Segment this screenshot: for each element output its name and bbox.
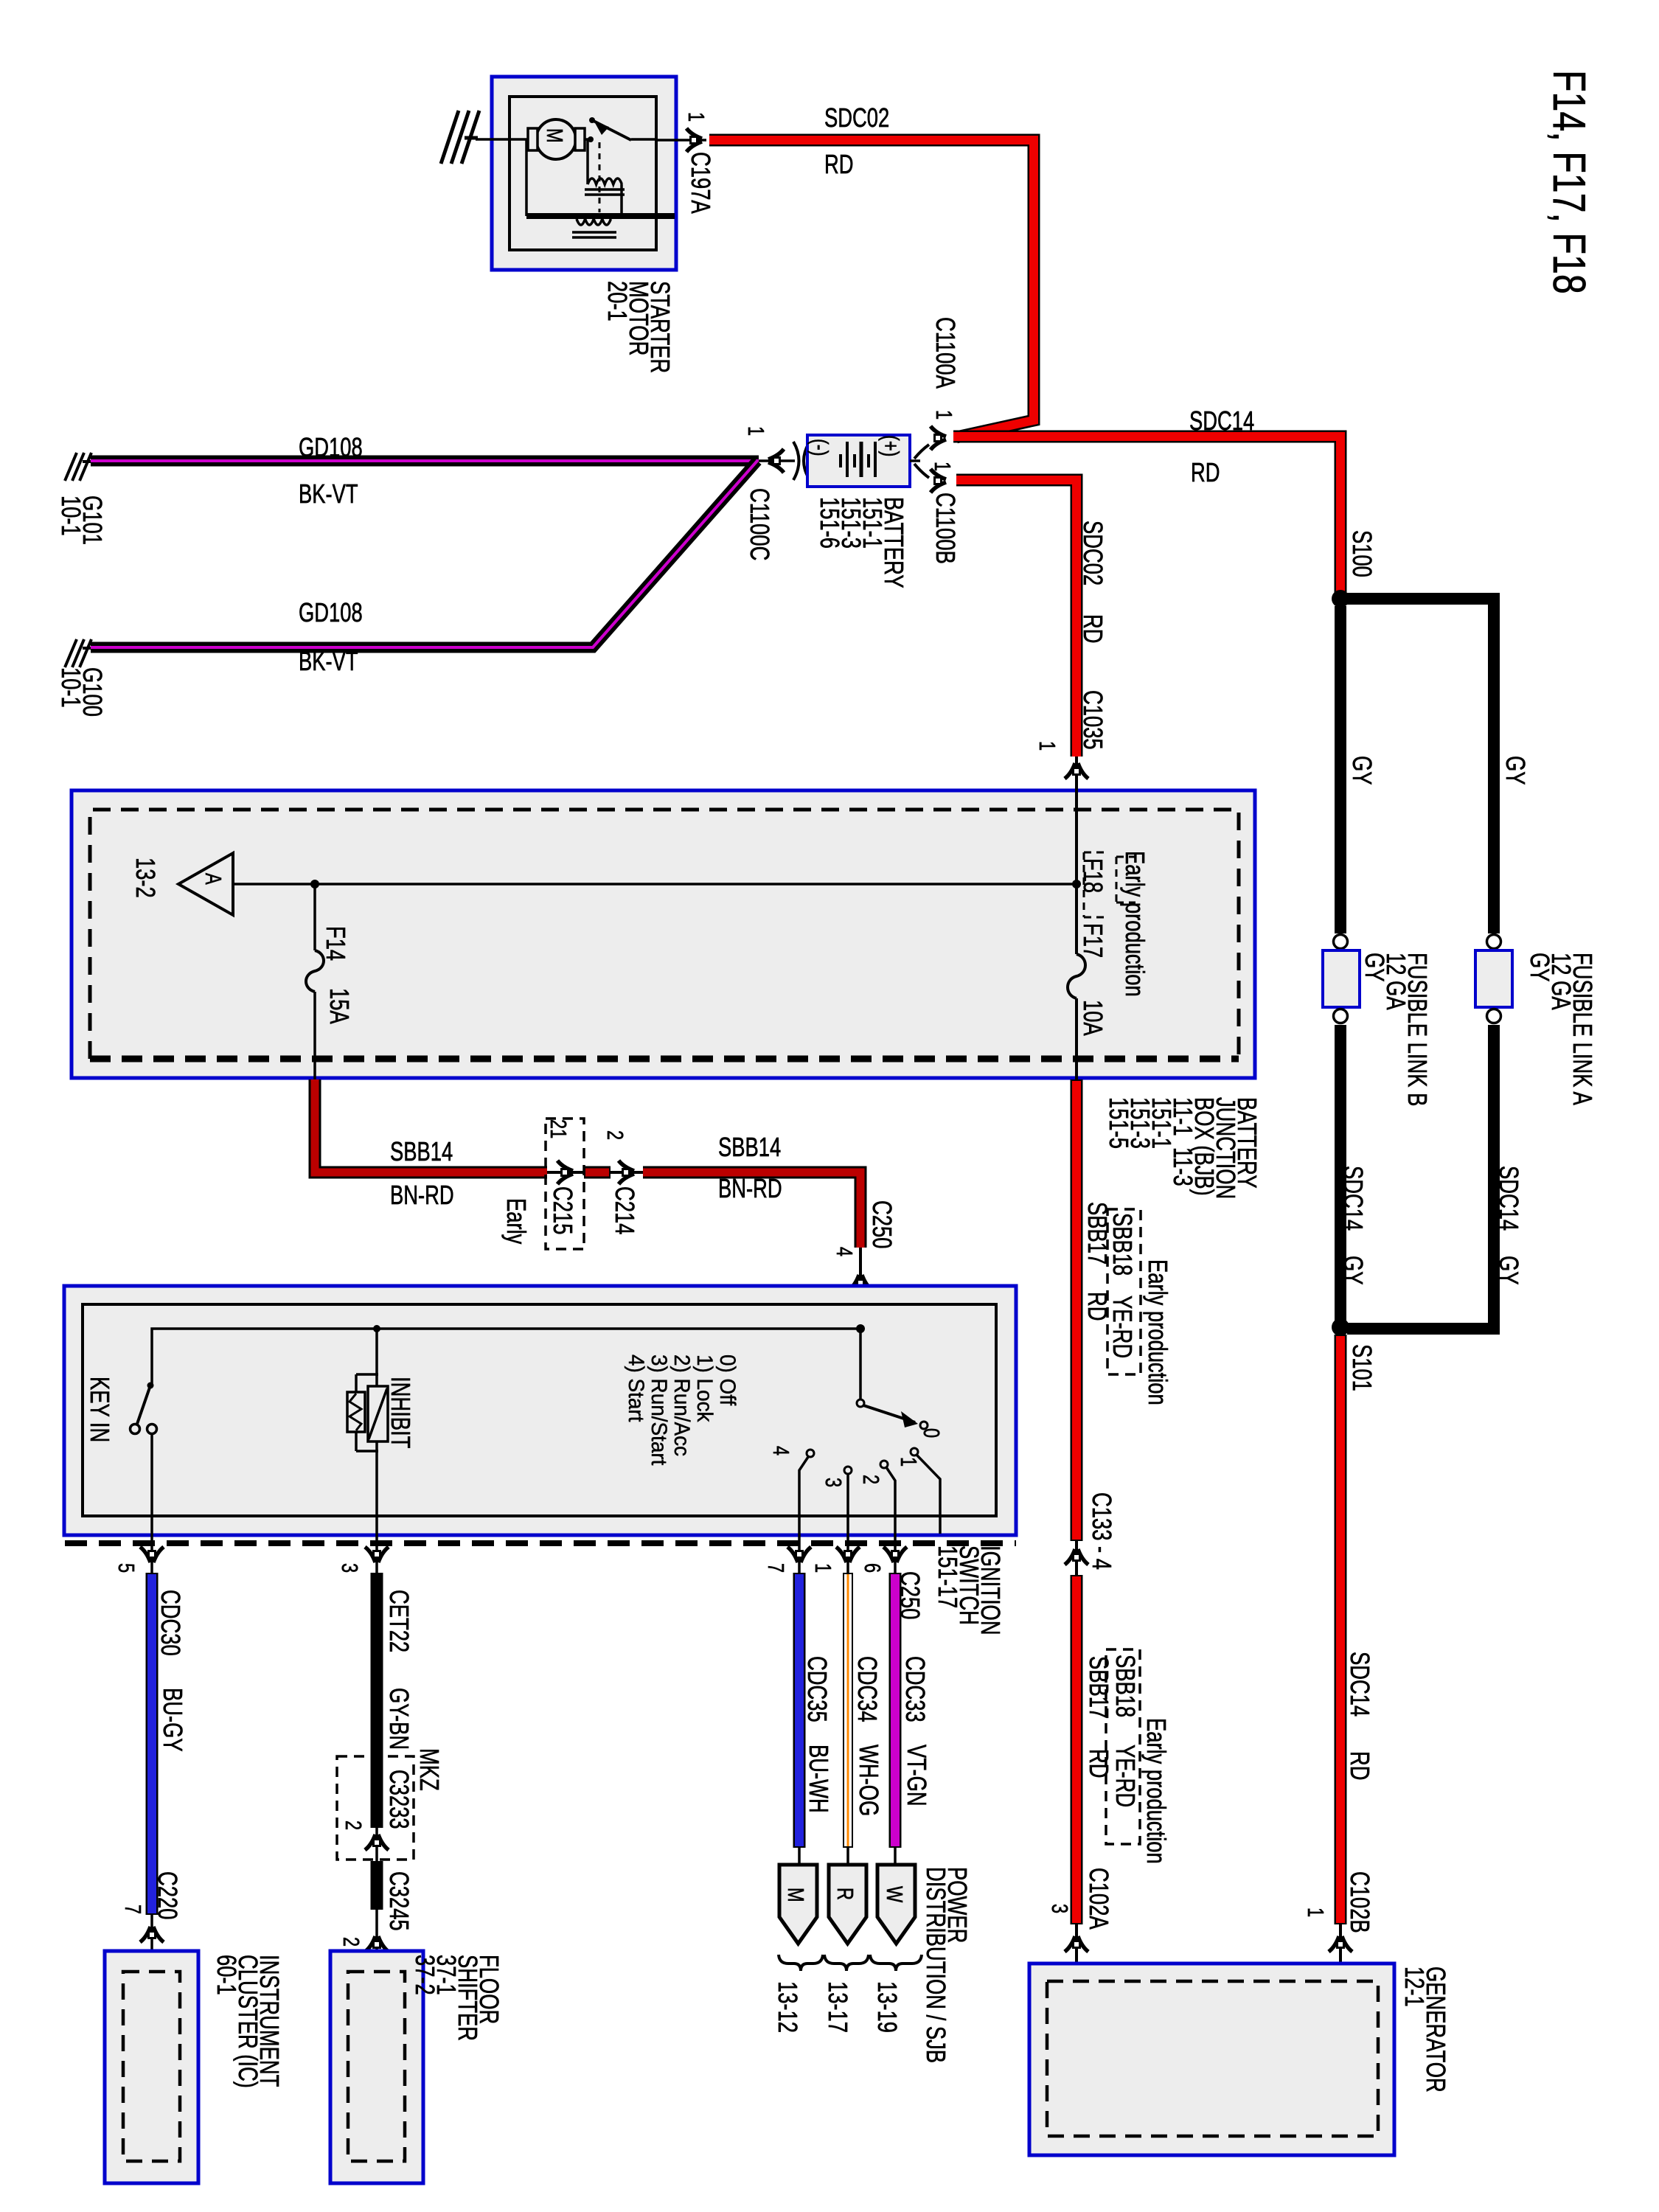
label SDC14 (below link A)	[1498, 1166, 1520, 1231]
wire CDC35 BU-WH	[793, 1573, 806, 1848]
connector C220 arrow	[150, 1915, 153, 1973]
wire SDC14 RD (to S100)	[953, 437, 1340, 594]
dashed box C215 (early)	[546, 1119, 584, 1249]
label G101 10-1	[60, 495, 103, 545]
wire SDC14 GY (link B to S101)	[1335, 1025, 1346, 1323]
node (bus to inhibit)	[373, 1325, 380, 1332]
pin 1 arrow	[836, 1547, 860, 1562]
label SBB18 (lower)	[1115, 1655, 1136, 1717]
label pin 3	[338, 1563, 361, 1573]
label YE-RD (upper)	[1112, 1295, 1133, 1358]
label M (motor)	[543, 128, 566, 143]
wire SDC02 RD (battery to BJB C1035)	[956, 480, 1077, 757]
label contact 2	[860, 1475, 883, 1484]
label BK-VT (G101)	[299, 481, 358, 507]
label pin 2 C214	[604, 1130, 627, 1140]
label RD (SBB17 lower)	[1088, 1749, 1110, 1778]
wire (contact 4 to pin 7)	[799, 1457, 808, 1573]
label (+)	[880, 435, 902, 456]
wire GD108 BK-VT (G101 to battery)	[91, 456, 759, 467]
dashed box SBB18 YE-RD (upper)	[1107, 1209, 1141, 1374]
label BU-WH	[808, 1745, 829, 1813]
label RD (vertical)	[1082, 614, 1104, 644]
label C214	[614, 1186, 636, 1234]
label S101	[1352, 1344, 1373, 1391]
label SDC02	[824, 105, 889, 131]
wire (to fuse F17)	[1075, 790, 1078, 954]
label M (terminal)	[785, 1888, 807, 1902]
wire (CDC35 to M)	[798, 1848, 801, 1865]
wire (ignition feed bus)	[152, 1329, 860, 1385]
label pin 21 C215	[547, 1119, 570, 1138]
wire (battery negative lead)	[759, 459, 795, 462]
ground (starter motor)	[441, 111, 479, 164]
label pin 4 C250	[833, 1247, 856, 1256]
contact 4	[807, 1450, 814, 1457]
label GY (below link A)	[1498, 1256, 1520, 1285]
label SDC14	[1189, 408, 1254, 434]
label C197A	[690, 152, 712, 214]
label SDC02 (vertical)	[1082, 521, 1104, 585]
label 13-2	[135, 858, 156, 898]
label contact 3	[822, 1478, 845, 1487]
label GY (left link top)	[1352, 756, 1373, 785]
label pin 2 C3245	[340, 1937, 363, 1947]
wire (motor left leg)	[525, 139, 528, 216]
label GY-BN	[389, 1688, 410, 1750]
connector C102B arrow	[1339, 1924, 1342, 1983]
dashed marker (early production note)	[1116, 857, 1135, 902]
label CDC33	[905, 1656, 926, 1722]
label C1100B	[935, 493, 956, 564]
label pin 1 C1035	[1036, 741, 1059, 751]
wire SDC02 RD (starter to battery corner)	[709, 140, 1034, 437]
label pin 1 C197A	[685, 112, 708, 122]
node (F14 tap)	[310, 880, 319, 888]
connector C3245 arrow	[375, 1910, 378, 1973]
label SDC14 (below link B)	[1343, 1166, 1364, 1231]
label F17	[1082, 923, 1104, 958]
label pin 3 C102A	[1048, 1904, 1071, 1913]
solenoid linkage (dashed)	[599, 142, 601, 212]
label pin 1 C1100C	[745, 426, 768, 436]
fusible link B	[1323, 935, 1360, 1023]
label FUSIBLE LINK B 12 GA GY	[1364, 953, 1428, 1106]
title F14, F17, F18	[1558, 70, 1579, 294]
label RD	[824, 151, 854, 178]
label BK-VT (G100)	[299, 648, 358, 675]
fuse F14 15A	[306, 950, 324, 992]
wire (to fuse F14)	[313, 884, 316, 950]
label C1035	[1082, 690, 1104, 750]
label YE-RD (lower)	[1115, 1745, 1136, 1807]
label pin 2 C3233	[342, 1820, 365, 1830]
label pin 5	[115, 1563, 138, 1573]
label SBB14 (left)	[390, 1138, 453, 1165]
label BN-RD (left)	[390, 1182, 454, 1208]
wire SBB14 BN-RD (C214 to C250)	[643, 1172, 860, 1248]
wire CDC30 BU-GY	[146, 1573, 159, 1915]
label SBB18 (upper)	[1112, 1213, 1133, 1276]
wire CDC34 WH-OG	[843, 1573, 853, 1848]
fusible link A	[1475, 935, 1512, 1023]
ground G101	[65, 453, 91, 481]
connector C3233 arrow	[375, 1828, 378, 1861]
motor M1	[528, 119, 585, 159]
label WH-OG	[858, 1745, 880, 1816]
pin 6 arrow	[883, 1547, 907, 1562]
connector C133-4 arrow	[1075, 1541, 1078, 1575]
label VT-GN	[906, 1745, 928, 1806]
connector C1035 arrow	[1075, 757, 1078, 790]
label (-)	[809, 439, 832, 456]
label Early (C215)	[506, 1198, 527, 1244]
solenoid coil lower	[572, 219, 616, 237]
connector C197A arrow	[686, 128, 702, 152]
label C220	[157, 1871, 178, 1919]
dashed marker (F18 early)	[1084, 852, 1109, 917]
wire (contact 2 to pin 6)	[886, 1467, 895, 1573]
generator box	[1029, 1964, 1394, 2155]
brace 13-12	[779, 1955, 823, 1971]
wire CET22 (C3233 to C3245)	[371, 1861, 383, 1910]
label POWER DISTRIBUTION / SJB	[925, 1867, 968, 2063]
connector C1100B arrow	[931, 469, 946, 493]
label BATTERY JUNCTION BOX (BJB)	[1108, 1097, 1258, 1199]
wire SDC14 GY (S100 down)	[1335, 606, 1346, 933]
wire GD108 BK-VT (G100 diagonal to battery)	[91, 461, 757, 647]
label FLOOR SHIFTER 37-1 37-2	[414, 1955, 500, 2041]
contact 0	[920, 1422, 928, 1429]
label S100	[1352, 530, 1373, 577]
label 13-12	[777, 1981, 799, 2033]
label contact 0	[920, 1428, 943, 1438]
contact 2	[880, 1461, 888, 1468]
label C133 - 4	[1091, 1492, 1113, 1570]
pin 5 arrow	[140, 1547, 164, 1562]
label F18	[1082, 858, 1104, 893]
label C102A	[1088, 1868, 1110, 1930]
label RD (S101)	[1349, 1751, 1371, 1781]
ground G100	[65, 639, 91, 667]
label pin 7	[765, 1563, 787, 1573]
label INHIBIT	[390, 1377, 411, 1448]
label BU-GY	[162, 1688, 184, 1752]
floor shifter box	[330, 1951, 423, 2183]
label GY (below link B)	[1343, 1256, 1364, 1285]
switch KEY IN	[131, 1382, 157, 1434]
wire SBB14 BN-RD (F14 to C215)	[315, 1079, 547, 1172]
label CDC34	[857, 1656, 878, 1722]
solenoid coil upper	[585, 140, 625, 214]
node (bus to rotor)	[856, 1324, 865, 1333]
label Early production (upper)	[1147, 1259, 1169, 1405]
relay coil INHIBIT	[347, 1374, 388, 1451]
wire (fuse F17 to box edge)	[1075, 998, 1078, 1079]
wire (battery positive leads)	[910, 445, 929, 478]
wire (CDC33 to W)	[894, 1848, 897, 1865]
ignition switch box	[64, 1286, 1016, 1535]
label SBB17 (upper)	[1087, 1202, 1108, 1265]
starter motor box	[492, 77, 676, 270]
wire (fuse F14 to box edge)	[313, 992, 316, 1079]
wire (switch to C197A)	[656, 139, 706, 142]
label BATTERY 151-1 151-3 151-6	[819, 497, 905, 588]
label IGNITION SWITCH 151-17	[937, 1545, 1001, 1635]
wire CDC33 VT-GN	[889, 1573, 902, 1848]
connector C250-4 arrow	[859, 1248, 862, 1329]
wire (key-in pin 5)	[150, 1434, 153, 1573]
junction S101	[1332, 1318, 1349, 1336]
label contact 1	[897, 1457, 920, 1467]
label F14	[325, 926, 347, 961]
starter internal bus	[526, 213, 675, 219]
label W (terminal)	[883, 1886, 906, 1902]
label KEY IN	[89, 1377, 111, 1442]
label INSTRUMENT CLUSTER (IC) 60-1	[216, 1955, 280, 2088]
label RD (SDC14)	[1191, 459, 1220, 486]
label SBB17 (lower)	[1088, 1656, 1110, 1719]
label BN-RD (right)	[718, 1175, 782, 1202]
connector C215 arrow	[547, 1171, 590, 1174]
brace 13-17	[824, 1955, 869, 1971]
label STARTER MOTOR 20-1	[607, 281, 671, 373]
label C3245	[389, 1871, 410, 1931]
instrument cluster box	[105, 1951, 198, 2183]
label A	[202, 873, 225, 885]
label MKZ	[419, 1748, 440, 1791]
terminal R	[829, 1865, 866, 1944]
ignition rotor	[857, 1329, 918, 1427]
wire SBB17 RD (BJB to C133)	[1071, 1079, 1083, 1541]
dashed connector face line (ignition)	[65, 1540, 1016, 1546]
wire (contact 3 to pin 1)	[846, 1474, 849, 1573]
terminal W	[877, 1865, 915, 1944]
wire (inhibit pin 3)	[375, 1441, 378, 1573]
label pin 1 C1100A	[933, 410, 956, 420]
node (F17 tap)	[1072, 880, 1081, 888]
contact 3	[844, 1467, 852, 1474]
label pin 7 C220	[122, 1905, 145, 1914]
label GY (right link top)	[1505, 756, 1526, 785]
pin 3 arrow	[365, 1547, 389, 1562]
label pin 1 C102B	[1304, 1907, 1327, 1917]
connector C1100C arrow	[768, 449, 784, 473]
label 13-17	[827, 1981, 849, 2033]
label C250 (SBB14)	[872, 1200, 893, 1248]
pin 7 arrow	[787, 1547, 811, 1562]
wire SDC14 RD (S101 to C102B)	[1335, 1335, 1347, 1924]
dashed box SBB18 YE-RD (lower)	[1106, 1649, 1140, 1844]
wire (CDC34 to R)	[846, 1848, 849, 1865]
junction S100	[1332, 590, 1349, 608]
wire SDC14 GY (S100 right arm)	[1346, 599, 1494, 933]
label pin 1	[812, 1563, 835, 1573]
label CET22	[389, 1590, 410, 1652]
label G100 10-1	[60, 667, 103, 717]
label SDC14 (S101)	[1349, 1652, 1371, 1717]
label pin 1 C1100B	[931, 462, 954, 471]
battery BAT1	[807, 435, 910, 487]
battery junction box BJB	[72, 790, 1255, 1078]
label GD108 (G100)	[299, 599, 363, 626]
label pin 6	[861, 1563, 884, 1573]
label contact 4	[770, 1446, 793, 1455]
label ignition positions	[625, 1354, 739, 1465]
solenoid switch contact	[585, 117, 656, 142]
label C250 (pin 6)	[900, 1571, 921, 1619]
label 13-19	[877, 1981, 898, 2033]
wire SBB17 RD (C133 to C102A)	[1071, 1575, 1083, 1924]
label SBB14 (right)	[718, 1134, 781, 1161]
wire SDC14 GY (link A to S101)	[1347, 1025, 1494, 1329]
label GD108 (G101)	[299, 434, 363, 461]
label C1100C	[749, 488, 771, 560]
label GENERATOR 12-1	[1404, 1966, 1447, 2093]
label C3233	[389, 1770, 410, 1829]
label Early production (lower)	[1146, 1718, 1167, 1864]
label Early production (BJB)	[1124, 851, 1146, 997]
label C102B	[1349, 1871, 1371, 1933]
wire (BJB internal bus)	[233, 883, 1077, 886]
wire CET22 GY-BN	[371, 1573, 383, 1828]
wire (ground to motor)	[476, 138, 529, 141]
label 15A	[329, 988, 350, 1024]
dashed box MKZ C3233	[337, 1756, 414, 1860]
label RD (SBB17 upper)	[1087, 1292, 1108, 1321]
connector C102A arrow	[1075, 1924, 1078, 1983]
wire (contact 1 stub)	[917, 1455, 940, 1534]
battery inline connector )(	[793, 442, 809, 480]
wire SBB14 (C215 to C214 stub)	[584, 1166, 611, 1179]
terminal M	[779, 1865, 817, 1944]
label R (terminal)	[834, 1888, 857, 1900]
fuse F17 10A	[1068, 954, 1085, 998]
symbol A (triangle 13-2)	[178, 853, 233, 915]
brace 13-19	[870, 1955, 922, 1971]
label C1100A	[935, 317, 956, 389]
contact 1	[911, 1448, 918, 1455]
label CDC35	[807, 1656, 828, 1722]
connector C1100A arrow	[931, 426, 946, 450]
label 10A	[1082, 1000, 1104, 1036]
wire (inhibit drop)	[375, 1329, 378, 1386]
label C215	[552, 1186, 574, 1234]
connector C214 arrow	[611, 1171, 643, 1174]
label FUSIBLE LINK A 12 GA GY	[1529, 953, 1593, 1105]
label CDC30	[160, 1590, 181, 1656]
